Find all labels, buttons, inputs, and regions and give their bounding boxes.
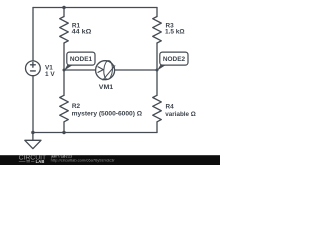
junction bottom left [31,131,34,134]
resistor R1 [60,17,69,44]
svg-text:mystery (5000-6000) Ω: mystery (5000-6000) Ω [72,111,143,118]
voltage source V1 [26,61,41,76]
svg-text:1 V: 1 V [45,71,55,78]
resistor R2 [60,95,69,122]
voltmeter VM1 body [96,61,115,80]
svg-text:LAB: LAB [36,159,45,164]
junction node1 [63,69,66,72]
node NODE2 flag [157,52,188,71]
resistor R3 [153,17,162,44]
wire top [33,7,157,9]
svg-text:R2: R2 [72,103,81,110]
wire middle branch [63,8,65,133]
svg-text:NODE1: NODE1 [70,56,92,63]
svg-text:variable Ω: variable Ω [165,111,196,118]
wire voltmeter to node2 [115,69,157,71]
footer logo LAB [19,159,45,164]
svg-text:NODE2: NODE2 [163,56,185,63]
resistor R4 [153,95,162,122]
junction node2 [156,69,159,72]
node NODE1 flag [64,52,95,71]
wire left branch upper [32,8,34,61]
wire left branch lower [32,76,34,133]
voltmeter VM1 dial [103,60,113,79]
wire node1 to voltmeter [64,69,96,71]
wire right branch [156,8,158,133]
junction bottom middle [62,131,65,134]
wire bottom [33,132,157,134]
svg-text:VM1: VM1 [99,84,114,91]
ground [32,133,34,141]
svg-text:44 kΩ: 44 kΩ [72,29,92,36]
junction top [62,6,65,9]
svg-text:R4: R4 [166,104,175,111]
svg-text:1.5 kΩ: 1.5 kΩ [165,29,185,36]
footer bar [0,155,220,165]
svg-text:http://circuitlab.com/c6a76y9z: http://circuitlab.com/c6a76y9zm3c3r [51,158,116,162]
voltmeter VM1 V glyph [98,67,103,73]
voltmeter VM1 needle [103,66,115,80]
